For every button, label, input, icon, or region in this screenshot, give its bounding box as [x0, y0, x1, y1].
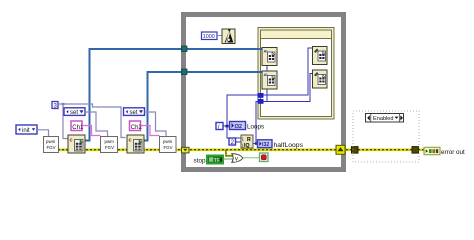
svg-text:c: c	[70, 138, 73, 144]
svg-text:set: set	[130, 110, 138, 116]
svg-text:1000: 1000	[203, 34, 215, 40]
indicator halfLoops	[258, 140, 273, 148]
VI icon BR	[313, 70, 328, 88]
selector label Enabled	[366, 114, 404, 123]
VI icon TL	[262, 48, 277, 66]
wire 2 const to QR	[236, 141, 242, 143]
or gate	[232, 154, 243, 163]
wire BL icon down to row2	[266, 89, 268, 102]
error wire branch to or gate	[226, 150, 233, 156]
wire 3 to icon2	[58, 104, 126, 138]
tunnel B	[182, 69, 188, 75]
error out indicator	[424, 147, 440, 154]
wire TL icon down to row	[266, 66, 268, 95]
subVI icon 2	[127, 135, 144, 153]
wire Ch2 to pwm3	[141, 126, 160, 136]
svg-text:set: set	[70, 110, 78, 116]
wire task B through structure border	[256, 71, 263, 73]
svg-text:I32: I32	[262, 142, 269, 148]
svg-text:c: c	[129, 138, 132, 144]
svg-text:TF: TF	[214, 158, 220, 164]
svg-text:⌊: ⌊	[242, 137, 244, 142]
svg-text:AI: AI	[264, 72, 268, 77]
pwm FGV 1	[44, 137, 59, 153]
wire set1 to pwm2	[85, 112, 108, 137]
wire stop to or gate	[223, 158, 233, 160]
wire 3 branch to icon1	[63, 104, 68, 139]
enum set 1	[64, 108, 85, 116]
wire halfLoops branch up	[256, 102, 258, 144]
inner sequence structure	[258, 28, 334, 120]
svg-text:halfLoops: halfLoops	[274, 142, 304, 149]
svg-text:stop: stop	[194, 157, 207, 164]
svg-text:pwm: pwm	[46, 139, 56, 144]
wire QR out to halfLoops	[253, 143, 258, 145]
svg-text:init: init	[22, 128, 30, 134]
indicator Loops	[230, 122, 246, 131]
iteration terminal i	[216, 123, 223, 131]
junction on 3 wire	[62, 103, 65, 106]
junction on halfLoops wire	[255, 142, 258, 145]
subVI icon 1	[68, 135, 85, 153]
svg-text:FGV: FGV	[105, 145, 114, 150]
constant 1000	[202, 32, 218, 40]
wire task A through structure border	[256, 48, 263, 50]
string Ch2	[130, 121, 143, 131]
boolean stop terminal	[207, 156, 223, 165]
wire task B horizontal	[143, 72, 262, 141]
enum init	[16, 125, 37, 134]
svg-text:AI: AI	[264, 49, 268, 54]
tunnel A	[182, 46, 188, 52]
diagram disable structure dotted border	[353, 111, 419, 162]
svg-text:pwm: pwm	[163, 139, 173, 144]
tunnel 1 on structure border	[258, 93, 264, 98]
svg-text:I32: I32	[235, 124, 243, 130]
VI icon TR	[313, 47, 328, 65]
wire i branch up through tunnel to TR icon	[227, 48, 313, 126]
wire i to Loops	[222, 125, 229, 127]
enum set 2	[124, 108, 145, 116]
VI icon BL	[262, 71, 277, 89]
wire halfLoops row to BR icon	[263, 74, 313, 102]
while loop frame	[184, 15, 344, 170]
error tunnel left border	[182, 147, 190, 153]
quotient and remainder	[241, 135, 253, 149]
wire Ch1 to pwm2	[82, 126, 101, 136]
svg-text:FGV: FGV	[164, 145, 173, 150]
tunnel 2 on structure border	[258, 99, 264, 104]
disable structure right tunnel	[412, 147, 419, 154]
disable structure left tunnel	[352, 147, 359, 154]
wait until next ms multiple	[222, 29, 235, 44]
svg-text:IQ: IQ	[244, 143, 249, 149]
error tunnel right border with triangle	[336, 145, 345, 154]
wire 1000 to wait	[217, 35, 222, 37]
wire set2 to pwm3	[145, 112, 167, 137]
svg-text:Enabled: Enabled	[373, 116, 394, 122]
wire task A horizontal	[84, 49, 262, 141]
junction on i wire	[226, 125, 229, 128]
svg-text:pwm: pwm	[105, 139, 115, 144]
pwm FGV 3	[160, 137, 177, 153]
pwm FGV 2	[101, 137, 118, 153]
constant 3	[52, 102, 58, 110]
wire i branch down to QR input	[227, 126, 241, 138]
error wire main	[58, 149, 425, 152]
svg-text:error out: error out	[441, 149, 465, 156]
conditional terminal stop if true	[260, 153, 269, 162]
svg-text:∨: ∨	[234, 157, 238, 163]
svg-text:Loops: Loops	[247, 123, 264, 130]
constant 2	[229, 138, 236, 146]
string Ch1	[71, 121, 84, 131]
svg-text:FGV: FGV	[47, 145, 56, 150]
wire init to pwm1	[37, 130, 49, 137]
wire or gate to conditional terminal	[243, 157, 260, 159]
